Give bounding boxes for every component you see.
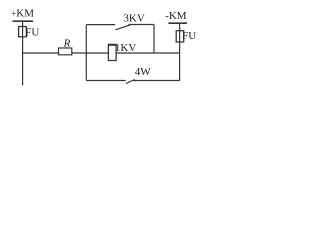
wire bottom (4W line) right segment <box>133 80 180 82</box>
svg-text:FU: FU <box>25 27 39 39</box>
svg-text:+KM: +KM <box>11 8 34 20</box>
svg-text:R: R <box>63 38 71 50</box>
svg-text:4W: 4W <box>135 66 152 78</box>
fuse FU (right) <box>176 31 184 42</box>
wire bottom (4W line) left segment <box>86 80 126 82</box>
wire loop right vertical <box>153 25 155 54</box>
wire middle horizontal <box>23 52 180 54</box>
switch blade on 3KV line <box>116 25 131 30</box>
component 1KV box <box>108 44 116 60</box>
svg-text:1KV: 1KV <box>115 42 136 54</box>
wire top (3KV line) right segment <box>129 24 154 26</box>
node -KM terminal bar <box>168 22 187 24</box>
fuse FU (left) <box>19 27 27 37</box>
node +KM terminal bar <box>12 20 33 22</box>
svg-text:FU: FU <box>182 30 196 42</box>
switch blade on 4W line <box>126 80 135 84</box>
resistor R <box>59 48 72 55</box>
svg-text:-KM: -KM <box>165 10 187 22</box>
wire loop left vertical <box>85 25 87 81</box>
svg-text:3KV: 3KV <box>123 12 144 24</box>
wire left rail <box>22 21 24 85</box>
wire top (3KV line) left segment <box>86 24 115 26</box>
wire right rail <box>179 23 181 80</box>
